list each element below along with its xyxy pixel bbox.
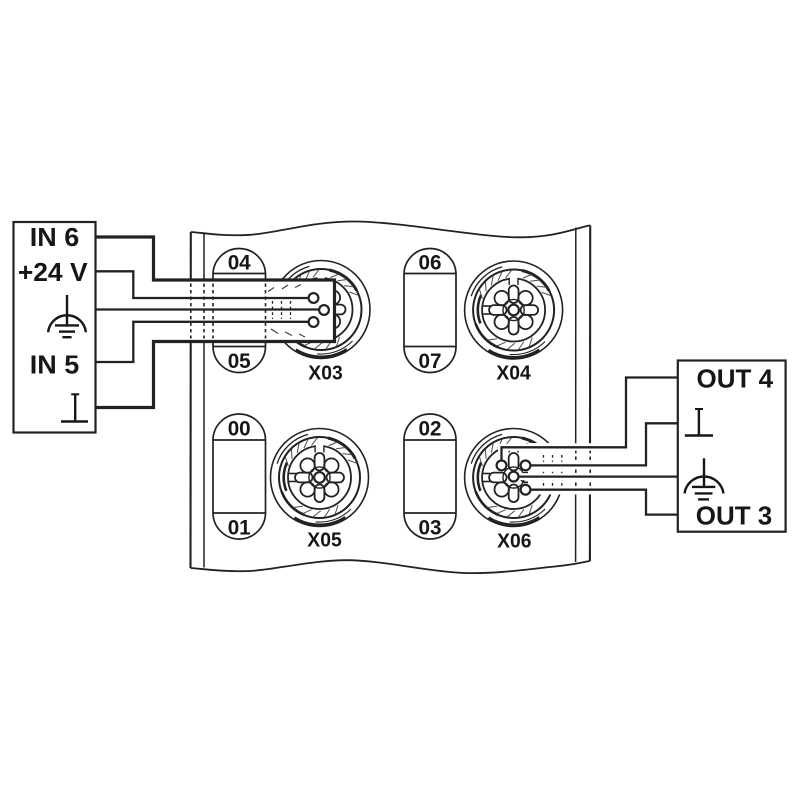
svg-text:X04: X04 xyxy=(496,363,531,385)
svg-text:07: 07 xyxy=(419,350,442,373)
svg-text:02: 02 xyxy=(419,418,442,441)
svg-text:03: 03 xyxy=(419,516,442,539)
svg-text:04: 04 xyxy=(228,252,251,275)
svg-text:01: 01 xyxy=(228,516,251,539)
svg-text:OUT 4: OUT 4 xyxy=(697,364,774,394)
svg-text:IN 6: IN 6 xyxy=(30,222,80,252)
svg-text:05: 05 xyxy=(228,350,251,373)
svg-text:06: 06 xyxy=(419,252,442,275)
svg-text:IN 5: IN 5 xyxy=(30,349,80,379)
svg-text:X03: X03 xyxy=(308,363,342,385)
svg-text:+24 V: +24 V xyxy=(18,257,88,287)
svg-text:X06: X06 xyxy=(497,531,531,553)
svg-text:X05: X05 xyxy=(307,530,341,552)
svg-text:00: 00 xyxy=(228,418,251,441)
svg-text:OUT 3: OUT 3 xyxy=(696,501,773,531)
